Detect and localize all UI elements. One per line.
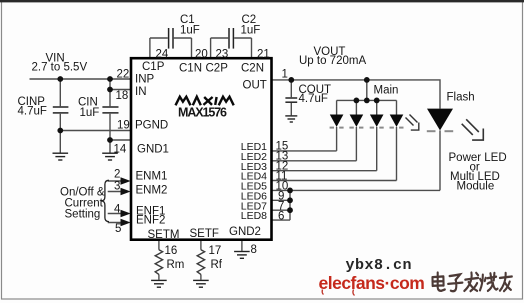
svg-text:PGND: PGND	[135, 120, 168, 132]
svg-text:C2P: C2P	[206, 63, 229, 75]
svg-text:GND2: GND2	[229, 226, 261, 238]
svg-text:OUT: OUT	[243, 80, 267, 92]
svg-text:ENF2: ENF2	[136, 215, 165, 227]
svg-text:Up to 720mA: Up to 720mA	[299, 55, 366, 67]
svg-text:2: 2	[114, 169, 120, 181]
svg-text:18: 18	[116, 90, 129, 102]
svg-text:C1N: C1N	[179, 63, 202, 75]
svg-text:SETF: SETF	[190, 228, 219, 240]
svg-text:20: 20	[195, 49, 208, 61]
svg-text:MAX1576: MAX1576	[178, 106, 227, 120]
svg-text:19: 19	[117, 120, 130, 132]
svg-text:17: 17	[209, 245, 222, 257]
svg-text:3: 3	[114, 181, 120, 193]
svg-text:8: 8	[251, 244, 257, 256]
svg-text:INP: INP	[135, 74, 155, 86]
svg-text:Main: Main	[374, 85, 399, 97]
svg-text:24: 24	[156, 49, 169, 61]
svg-text:elecfans·com: elecfans·com	[319, 273, 425, 293]
svg-text:6: 6	[278, 211, 284, 223]
svg-text:4.7uF: 4.7uF	[299, 93, 328, 105]
svg-text:16: 16	[165, 245, 178, 257]
svg-text:Setting: Setting	[65, 209, 101, 221]
svg-text:ENM1: ENM1	[136, 171, 168, 183]
svg-text:IN: IN	[135, 86, 147, 98]
svg-text:1uF: 1uF	[180, 25, 200, 37]
svg-text:LED8: LED8	[241, 210, 267, 222]
svg-text:C2N: C2N	[241, 63, 264, 75]
svg-text:ybx8.cn: ybx8.cn	[346, 257, 413, 274]
svg-text:1uF: 1uF	[241, 25, 261, 37]
svg-text:2.7 to 5.5V: 2.7 to 5.5V	[32, 62, 88, 74]
svg-text:14: 14	[114, 144, 127, 156]
svg-text:Rf: Rf	[211, 259, 223, 271]
svg-text:5: 5	[115, 223, 121, 235]
svg-text:1: 1	[282, 69, 288, 81]
svg-text:ENM2: ENM2	[136, 185, 168, 197]
svg-text:4: 4	[114, 204, 121, 216]
svg-text:1uF: 1uF	[80, 107, 100, 119]
svg-text:C1P: C1P	[142, 61, 165, 73]
svg-text:23: 23	[216, 49, 229, 61]
svg-text:21: 21	[257, 49, 270, 61]
svg-text:22: 22	[117, 69, 130, 81]
svg-text:SETM: SETM	[148, 229, 180, 241]
svg-text:Module: Module	[457, 181, 495, 193]
svg-text:Rm: Rm	[167, 259, 185, 271]
svg-text:4.7uF: 4.7uF	[18, 106, 47, 118]
svg-text:Flash: Flash	[447, 92, 475, 104]
svg-text:GND1: GND1	[137, 144, 169, 156]
